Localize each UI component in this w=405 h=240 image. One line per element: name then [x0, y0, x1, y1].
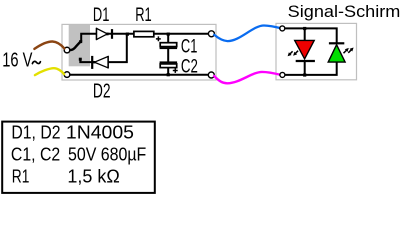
diode D2 cathode bar: [91, 56, 93, 69]
yellow wire: [35, 68, 64, 75]
parts list box: [2, 122, 155, 193]
wire: capacitor branch: [167, 34, 169, 75]
LED red triangle: [295, 40, 315, 59]
junction dot bottom rail at capacitor branch: [167, 73, 170, 76]
LED box terminal bottom: [280, 72, 285, 77]
switch lever: [70, 42, 81, 50]
svg-text:C1, C2: C1, C2: [11, 144, 60, 164]
svg-text:1,5 kΩ: 1,5 kΩ: [67, 166, 119, 186]
capacitor C1 negative plate: [160, 47, 178, 49]
LED box terminal top: [280, 26, 285, 31]
terminal circle bottom-left: [64, 72, 70, 78]
capacitor C2 plus sign: [173, 68, 178, 73]
svg-text:D1, D2: D1, D2: [11, 122, 60, 142]
red LED arrow 2: [293, 51, 298, 56]
wire: LED box bottom rail: [285, 62, 337, 75]
LED green triangle: [328, 45, 345, 62]
junction dot LED bottom rail: [303, 73, 306, 76]
wire: LED box top rail: [285, 28, 337, 43]
LED indicator box: [276, 23, 357, 79]
svg-text:C2: C2: [181, 56, 198, 77]
red LED arrow 1: [288, 51, 293, 56]
diode D1 cathode bar: [111, 29, 113, 39]
svg-text:50V 680µF: 50V 680µF: [68, 144, 146, 164]
switch contact dot lower: [79, 58, 82, 61]
svg-text:1N4005: 1N4005: [66, 122, 134, 142]
junction dot after R1: [167, 33, 170, 36]
svg-text:Signal-Schirm: Signal-Schirm: [288, 2, 401, 21]
terminal circle bottom-right: [208, 72, 214, 78]
wire: red LED branch: [304, 28, 306, 75]
svg-text:R1: R1: [12, 166, 30, 186]
capacitor C1 positive plate: [160, 43, 177, 47]
brown wire: [34, 41, 64, 48]
capacitor C1 plus sign: [156, 36, 161, 41]
blue wire: [214, 25, 281, 41]
svg-text:C1: C1: [181, 36, 198, 57]
resistor R1 body: [134, 31, 154, 36]
LED green cathode bar: [329, 42, 344, 44]
svg-text:R1: R1: [135, 5, 152, 26]
junction dot LED top rail: [303, 27, 306, 30]
wire: D2 branch (contact to D2, D2 to top rail): [80, 34, 127, 62]
magenta wire: [214, 72, 281, 83]
capacitor C2 positive plate: [160, 64, 177, 68]
outer circuit box: [62, 24, 216, 80]
switch housing (gray shaded box): [69, 25, 90, 66]
green LED arrow 1: [344, 48, 349, 53]
svg-text:16 V: 16 V: [2, 50, 33, 72]
diode D2 tip dot: [93, 61, 95, 63]
terminal circle top-left: [64, 47, 70, 53]
svg-text:D2: D2: [93, 81, 111, 103]
wire: bottom rail: [69, 74, 209, 76]
LED red cathode bar: [296, 60, 315, 62]
svg-text:D1: D1: [93, 5, 110, 26]
switch contact dot upper: [79, 40, 82, 43]
diode D2 triangle: [94, 56, 108, 68]
wire: top rail from switch to D1, D1 to R1, R1 to right terminal: [81, 34, 209, 42]
junction dot after D1: [126, 33, 129, 36]
diode D1 triangle: [97, 28, 109, 40]
capacitor C2 negative plate: [160, 61, 178, 63]
green LED arrow 2: [348, 48, 353, 53]
terminal circle top-right: [208, 31, 214, 37]
